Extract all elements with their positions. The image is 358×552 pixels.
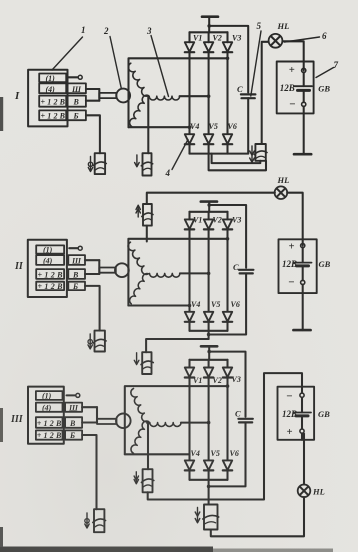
phase wire C II	[128, 304, 189, 306]
battery GB3 short plate	[296, 414, 308, 417]
arrow with circle at F3	[86, 513, 88, 527]
battery GB2 long plate	[294, 262, 312, 264]
bridge bottom bus III	[190, 479, 228, 481]
connector X3 pin Sh box	[65, 403, 82, 412]
V2 column upper	[208, 32, 210, 42]
relay box K2 (neutral)	[143, 204, 152, 226]
fuse box F1 (from B terminal)	[95, 153, 105, 174]
connector X1 cell +12V b	[39, 110, 66, 120]
diode V1	[185, 42, 194, 52]
up arrow at K2	[137, 206, 139, 218]
wire lamp to battery II	[287, 193, 303, 246]
wire Sh to brush	[86, 88, 99, 90]
capacitor rail lower	[247, 98, 249, 153]
connector X2 cell (1)	[36, 245, 64, 253]
V3 column mid III	[226, 378, 228, 460]
wire bottom bus to regulator (outer)	[209, 154, 266, 171]
double down arrow at K3	[135, 472, 137, 484]
wire lamp to battery III	[303, 434, 305, 485]
V4 tail II	[188, 322, 190, 331]
battery GB3 terminal top	[300, 393, 304, 397]
wire B down from connector II	[85, 286, 100, 331]
diode V4 III	[185, 460, 194, 470]
connector X2 pin V box	[68, 269, 85, 279]
relay box K3 (neutral)	[143, 469, 153, 492]
V1 column mid	[188, 52, 190, 133]
battery GB3 terminal bottom	[300, 429, 304, 433]
ground bar I	[294, 153, 311, 156]
connector X2 pin B box	[68, 282, 85, 290]
connector X1 pin Sh box	[68, 83, 86, 93]
lamp HL2	[275, 186, 288, 199]
leader 7	[316, 68, 334, 78]
wire regulator to lamp	[262, 42, 269, 144]
wire plus bus to capacitor rail III	[209, 352, 245, 417]
leader 2	[110, 37, 121, 89]
bridge bottom bus II	[190, 330, 228, 332]
stator winding horizontal II	[150, 273, 180, 277]
neutral wire up to relay II	[146, 226, 148, 242]
stator winding vertical (legs A-C)	[128, 63, 148, 126]
node phase A at V3 III	[226, 384, 230, 388]
battery GB3 internal wire	[301, 398, 303, 413]
V4 tail	[188, 144, 190, 153]
V2 column upper III	[208, 360, 210, 368]
neutral wire down to relay III	[147, 423, 149, 470]
V3 column upper III	[226, 360, 228, 368]
wire B down from connector	[86, 115, 100, 153]
page edge artifacts	[0, 547, 213, 552]
V5 tail II	[208, 322, 210, 339]
regulator box A1	[255, 144, 265, 161]
leader 5	[251, 31, 261, 96]
diode V5 III	[204, 460, 213, 470]
wire lamp to battery	[282, 41, 303, 70]
connector X2 cell +12V a	[36, 269, 64, 279]
stator winding crescent III	[131, 389, 148, 454]
wire B down from connector III	[82, 435, 96, 509]
connector X1 outer box	[28, 70, 67, 127]
ground bar II	[293, 329, 310, 332]
battery GB1 terminal top	[302, 68, 306, 72]
battery GB1 long plate	[295, 85, 313, 87]
connector X3 cell +12V a	[36, 417, 63, 428]
bridge top bus II	[190, 211, 228, 213]
diode V2 II	[204, 219, 213, 229]
V5 tail	[208, 144, 210, 153]
wire relay III to battery minus	[148, 373, 302, 499]
node phase C at V1	[188, 125, 192, 129]
chassis stem II	[208, 202, 210, 212]
wire plus bus to capacitor rail II	[209, 205, 246, 268]
connector X3 cell (4)	[36, 403, 63, 412]
connector X2 cell (4)	[36, 255, 64, 265]
chassis stem	[208, 17, 210, 33]
capacitor C3 bottom plate	[239, 421, 252, 423]
diode V3 III	[223, 368, 232, 378]
V2 column mid II	[208, 230, 210, 312]
wire relay to lamp II	[147, 193, 275, 204]
diode V1 III	[185, 368, 194, 378]
V6 tail	[226, 144, 228, 153]
brush bracket	[98, 89, 100, 101]
wire V to brush	[86, 100, 99, 102]
V6 tail III	[226, 471, 228, 480]
diode V6 II	[223, 312, 232, 322]
phase wire C (to V1 column)	[129, 126, 190, 128]
phase wire A (top)	[129, 58, 228, 127]
connector X2 pin Sh box	[68, 255, 85, 265]
terminal symbol row 1	[69, 76, 78, 78]
brush bracket II	[98, 260, 100, 274]
V3 column upper	[226, 32, 228, 42]
node minus at V5 III	[207, 485, 211, 489]
battery GB2 box	[279, 239, 317, 293]
battery GB2 short plate	[297, 264, 309, 267]
wire battery to ground II	[302, 285, 304, 331]
V1 column upper	[188, 32, 190, 42]
V2 column mid III	[208, 378, 210, 460]
node phase C at V1 II	[188, 304, 192, 308]
generator G2 rotor circle	[115, 263, 129, 277]
wire Sh to brush III	[82, 406, 97, 408]
diode V2 III	[204, 368, 213, 378]
wire Sh to brush II	[85, 259, 99, 261]
diode V6 III	[223, 460, 232, 470]
bridge top bus	[190, 31, 228, 33]
connector X3 pin B box	[65, 430, 82, 439]
V1 column mid II	[188, 230, 190, 312]
capacitor C1 bottom plate	[242, 97, 255, 99]
fuse box F2	[95, 331, 105, 352]
battery GB1 internal wire	[303, 73, 305, 87]
chassis stem III	[208, 346, 210, 360]
connector X1 pin B box	[68, 110, 86, 120]
diode V3 II	[223, 219, 232, 229]
lamp HL1	[269, 34, 283, 48]
connector X3 cell +12V b	[36, 430, 63, 439]
phase wire A III	[125, 386, 228, 454]
battery GB3 long plate	[294, 412, 312, 414]
node phase A at V3 II	[226, 237, 230, 241]
V1 column upper II	[188, 212, 190, 220]
arrow with circle at F1	[90, 157, 92, 171]
battery GB3 bottom wire	[301, 434, 303, 440]
phase wire C III	[125, 453, 190, 455]
node phase B at V2 III	[207, 421, 211, 425]
V3 column mid II	[226, 230, 228, 312]
terminal symbol row 1 III	[67, 394, 76, 396]
relay box K2b	[142, 352, 151, 374]
phase wire B to V2 column II	[180, 272, 209, 274]
regulator box A3	[204, 505, 218, 530]
node minus at V5 II	[207, 333, 211, 337]
diode V5 II	[204, 312, 213, 322]
bridge top bus III	[190, 359, 228, 361]
diode V2	[204, 42, 213, 52]
connector X1 cell (1)	[39, 74, 66, 83]
chassis bar on top of bridge	[202, 15, 218, 18]
arrow at K1	[136, 155, 138, 166]
connector X2 cell +12V b	[36, 282, 64, 290]
brush holder III	[97, 419, 117, 424]
phase wire A II	[128, 239, 227, 306]
diode V5	[204, 134, 213, 144]
capacitor C2 bottom plate	[240, 272, 253, 274]
leader 4	[172, 140, 188, 170]
generator G1 rotor circle	[116, 89, 130, 103]
double arrow at A3	[197, 508, 199, 523]
leader 3	[151, 36, 169, 97]
generator G3 rotor circle	[116, 414, 131, 429]
capacitor C3 top plate	[238, 418, 252, 420]
lamp HL3	[298, 485, 311, 498]
wire battery to ground	[303, 106, 305, 154]
node phase B at V2 II	[207, 272, 211, 276]
relay box K1 (neutral)	[143, 153, 152, 175]
V1 column upper III	[188, 360, 190, 368]
node phase B at V2	[207, 94, 211, 98]
chassis bar II	[201, 200, 217, 203]
connector X3 cell (1)	[36, 391, 63, 400]
V6 tail II	[226, 322, 228, 331]
brush holder of generator	[99, 93, 116, 98]
battery GB2 terminal top	[301, 244, 305, 248]
arrow at K2b	[136, 353, 138, 364]
battery GB2 terminal bottom	[301, 280, 305, 284]
connector X3 outer box	[28, 387, 64, 444]
diode V3	[223, 42, 232, 52]
chassis bar III	[201, 345, 217, 348]
node phase A at V3	[226, 57, 230, 61]
battery GB1 box	[277, 62, 314, 114]
diode V1 II	[185, 219, 194, 229]
brush bracket III	[96, 407, 98, 422]
V1 column mid III	[188, 378, 190, 460]
battery GB1 terminal bottom	[302, 102, 306, 106]
V2 column mid	[208, 52, 210, 133]
double arrow at A1	[251, 146, 253, 162]
wire regulator to lamp III	[211, 497, 304, 536]
battery GB3 box	[278, 387, 315, 440]
V3 column mid	[226, 52, 228, 133]
V4 tail III	[188, 471, 190, 480]
node at stem	[207, 24, 211, 28]
capacitor C2 top plate	[239, 269, 253, 271]
connector X1 pin V box	[68, 96, 86, 107]
brush holder II	[99, 268, 116, 273]
capacitor rail lower III	[209, 422, 246, 486]
fuse box F3	[94, 509, 104, 532]
node at stem II	[207, 203, 211, 207]
capacitor C1 top plate	[241, 93, 256, 95]
connector X1 cell (4)	[39, 83, 66, 93]
capacitor rail lower II	[209, 273, 247, 334]
V2 column upper II	[208, 212, 210, 220]
wire V to brush III	[82, 421, 97, 423]
phase wire B to V2 column	[180, 95, 209, 97]
wire plus bus to capacitor rail	[209, 26, 248, 93]
leader 6	[285, 37, 320, 42]
stator winding horizontal III	[150, 423, 181, 427]
battery GB2 internal wire	[302, 248, 304, 263]
terminal symbol row 1 II	[69, 247, 77, 249]
stator winding vertical II	[128, 242, 148, 304]
V3 column upper II	[226, 212, 228, 220]
leader 1	[52, 37, 83, 70]
diode V4 II	[185, 312, 194, 322]
phase wire B to V2 column III	[181, 422, 209, 424]
diode V4	[185, 134, 194, 144]
diode V6	[223, 134, 232, 144]
bridge bottom bus	[190, 153, 249, 155]
stator winding horizontal (leg B)	[149, 96, 179, 100]
battery GB1 short plate	[298, 89, 310, 92]
connector X3 pin V box	[65, 417, 82, 428]
wire minus to relay K2b	[146, 339, 209, 352]
connector X1 cell +12V a	[39, 96, 66, 107]
connector X2 outer box	[28, 240, 67, 297]
node at stem III	[207, 350, 211, 354]
wire V to brush II	[85, 273, 99, 275]
arrow with circle at F2	[89, 334, 91, 348]
V5 tail III	[208, 471, 210, 505]
neutral wire down to regulator	[147, 97, 149, 154]
node star point III	[146, 421, 150, 425]
wire bottom bus to regulator (inner)	[212, 154, 261, 164]
